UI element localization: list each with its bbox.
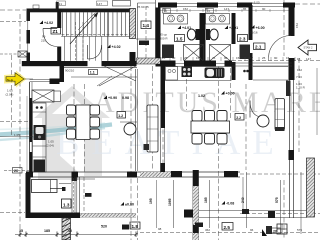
svg-text:86: 86 bbox=[243, 7, 247, 11]
corridor wall x136 bbox=[135, 69, 137, 171]
watermark house logo bbox=[34, 86, 110, 180]
stair room top wall bbox=[27, 9, 136, 13]
bed room 1.3 bbox=[32, 180, 58, 193]
dim leader left bbox=[0, 136, 33, 138]
hatched pier bottom left bbox=[62, 218, 71, 240]
svg-text:15: 15 bbox=[236, 56, 240, 60]
svg-text:90/210: 90/210 bbox=[65, 69, 75, 73]
dashed horizontal y232.5 bbox=[140, 232, 320, 234]
label 2 small box bbox=[85, 193, 92, 197]
window gap west wall a bbox=[27, 21, 31, 30]
svg-text:25: 25 bbox=[212, 56, 216, 60]
svg-text:+0.90: +0.90 bbox=[108, 96, 117, 100]
hob unit2 dots bbox=[243, 70, 246, 73]
stair room left wall lower bbox=[57, 47, 61, 63]
wall x160 lower bbox=[161, 66, 166, 128]
dashed grid vertical x11.5 bbox=[11, 55, 13, 136]
svg-text:98: 98 bbox=[158, 227, 162, 231]
svg-text:1.05: 1.05 bbox=[14, 133, 20, 137]
black chunk terrace bbox=[184, 210, 193, 218]
svg-text:575: 575 bbox=[275, 197, 279, 203]
level +4.02 b bbox=[107, 45, 111, 49]
dishwasher unit1 bbox=[166, 67, 178, 81]
mid wall band left bbox=[137, 58, 161, 64]
stairs lower treads bbox=[64, 36, 108, 60]
wall x193 dark block bottom bbox=[193, 225, 199, 233]
svg-text:25: 25 bbox=[184, 56, 188, 60]
wall x160 dark chunk low bbox=[161, 163, 166, 172]
stairs landing line bbox=[61, 35, 129, 37]
label 1.4 box bbox=[141, 21, 151, 29]
room 1.3 bottom wall bbox=[26, 213, 81, 219]
svg-text:520: 520 bbox=[101, 225, 107, 229]
wall right of bathroom2 bbox=[232, 13, 236, 44]
svg-text:26/16: 26/16 bbox=[250, 31, 258, 35]
kitchen unit2 counter bbox=[253, 66, 288, 68]
pier above wall bbox=[56, 2, 59, 9]
washer 2 bbox=[240, 45, 251, 60]
svg-text:152: 152 bbox=[183, 7, 188, 11]
svg-text:90: 90 bbox=[172, 56, 176, 60]
bathroom divider wall bbox=[200, 13, 206, 65]
stair dashed cut line bbox=[62, 34, 137, 36]
stair room bottom wall bbox=[22, 61, 88, 66]
svg-text:2.2: 2.2 bbox=[236, 116, 241, 120]
vertical dim line x246 bbox=[246, 172, 248, 228]
svg-text:24: 24 bbox=[207, 9, 211, 13]
svg-text:96: 96 bbox=[250, 228, 254, 232]
svg-text:25: 25 bbox=[162, 56, 166, 60]
dining table left apartment bbox=[76, 105, 90, 140]
tick row under top wall bbox=[160, 10, 290, 12]
stair room left wall upper bbox=[57, 9, 61, 29]
svg-text:+4.01: +4.01 bbox=[229, 26, 238, 30]
lower left apartment left wall bbox=[29, 82, 31, 173]
svg-text:2.1: 2.1 bbox=[255, 45, 262, 50]
svg-text:1.20 R: 1.20 R bbox=[296, 86, 306, 90]
dashed grid vertical x284 bbox=[283, 0, 285, 56]
dashed horizontal y131.5 left bbox=[0, 121, 29, 123]
dashed grid vertical x246 bbox=[245, 84, 247, 170]
dashed grid vertical x218.5 bbox=[218, 66, 220, 240]
svg-text:15: 15 bbox=[286, 56, 290, 60]
svg-text:147: 147 bbox=[224, 7, 229, 11]
svg-text:(2.04): (2.04) bbox=[46, 144, 54, 148]
right edge dim line bbox=[316, 68, 318, 135]
svg-text:1.02: 1.02 bbox=[198, 94, 205, 98]
dining set unit1 chairs bottom row bbox=[192, 134, 227, 145]
level +4.02 a bbox=[40, 21, 44, 25]
unit divider wall x242 bbox=[249, 5, 253, 40]
top wall right section bbox=[158, 3, 177, 8]
vertical dim line x280 bbox=[280, 180, 282, 228]
dashed horizontal y213.5 right bbox=[240, 213, 320, 215]
svg-text:16: 16 bbox=[164, 9, 168, 13]
toilet 1 bbox=[196, 29, 200, 40]
svg-text:185: 185 bbox=[44, 229, 50, 233]
small dark label on dash bbox=[242, 209, 249, 214]
chairs left column bbox=[67, 105, 100, 139]
closet with X bbox=[32, 90, 54, 102]
label 1.2 box bbox=[117, 112, 126, 119]
dashed grid vertical x184.5 bbox=[186, 64, 188, 110]
room 1.3 left wall bbox=[26, 173, 31, 218]
stair door arc left bbox=[43, 29, 57, 47]
small dark label under 1.4 bbox=[139, 41, 149, 46]
watermark teal swoosh bbox=[0, 125, 112, 135]
bottom dimension line left bbox=[15, 234, 136, 236]
entry door swing X bbox=[104, 66, 136, 81]
toilet 2 bbox=[206, 29, 210, 40]
mid thin lines to right bbox=[232, 62, 292, 64]
threshold at entry bbox=[30, 81, 60, 83]
shower 1 bbox=[184, 45, 204, 62]
svg-text:210: 210 bbox=[41, 39, 46, 43]
label 1.3 box bbox=[62, 199, 72, 208]
terrace edge lines lower right bbox=[199, 210, 307, 212]
right outer wall bbox=[289, 5, 295, 36]
label 1.5 box bbox=[175, 35, 185, 42]
vertical dim line x209 bbox=[209, 180, 211, 228]
svg-text:575: 575 bbox=[297, 228, 302, 232]
svg-text:+6.00: +6.00 bbox=[256, 26, 265, 30]
svg-text:1.3: 1.3 bbox=[63, 203, 70, 208]
svg-text:90: 90 bbox=[262, 7, 266, 11]
yellow arrow bbox=[4, 71, 27, 88]
stair dashed overhead lines bbox=[75, 22, 77, 60]
window gap west wall b bbox=[27, 44, 31, 53]
svg-text:Z1: Z1 bbox=[53, 29, 59, 34]
svg-text:7.53: 7.53 bbox=[296, 75, 302, 79]
stair stringer line bbox=[107, 12, 109, 61]
svg-text:1.4: 1.4 bbox=[143, 23, 150, 28]
thin vertical x301 bbox=[300, 172, 302, 234]
shelf line bbox=[50, 188, 64, 190]
shaft lines right of stair room bbox=[137, 3, 139, 62]
svg-text:40: 40 bbox=[68, 229, 72, 233]
small label boxes bathrooms bbox=[163, 9, 171, 14]
round table living left bbox=[124, 123, 136, 135]
sink counter 2 bbox=[206, 14, 230, 25]
svg-text:+0.00: +0.00 bbox=[226, 92, 235, 96]
sink counter 1 bbox=[164, 14, 188, 25]
entry stub wall bbox=[50, 79, 60, 85]
dashed grid vertical x230.5 bbox=[230, 68, 232, 120]
washer 1 bbox=[162, 45, 174, 59]
door gap bathroom2 bbox=[216, 61, 225, 67]
label Z1 box bbox=[51, 28, 61, 35]
thin vertical x243 terrace bbox=[242, 177, 244, 211]
svg-text:90: 90 bbox=[274, 56, 278, 60]
svg-text:2.5: 2.5 bbox=[224, 225, 231, 230]
level marker +0.90 bbox=[104, 96, 108, 100]
wardrobe right wall bbox=[286, 81, 291, 97]
svg-text:-0.08: -0.08 bbox=[226, 202, 234, 206]
svg-text:1065: 1065 bbox=[168, 198, 172, 206]
svg-text:185: 185 bbox=[204, 197, 208, 203]
level +4.01 b bbox=[225, 26, 229, 30]
svg-text:+4.01: +4.01 bbox=[182, 26, 191, 30]
label 2.1 box bbox=[254, 43, 266, 50]
svg-text:15: 15 bbox=[297, 57, 301, 61]
level marker -0.08 right bbox=[222, 201, 226, 205]
kitchen appliance above room1.3 bbox=[34, 160, 45, 172]
shower 2 bbox=[210, 45, 231, 62]
label 2.2 box bbox=[235, 114, 244, 121]
dashed horizontal top left bbox=[0, 9, 26, 11]
mid wall band bathrooms bbox=[160, 61, 232, 67]
dining table unit1 bbox=[191, 121, 230, 133]
label 26 dashed leader bbox=[4, 170, 29, 172]
round table unit2 bbox=[257, 115, 269, 127]
svg-text:1.8: 1.8 bbox=[132, 224, 139, 229]
sink unit1 bbox=[205, 68, 225, 79]
dark square terrace right bbox=[268, 211, 275, 218]
right wall dark seg y150 bbox=[289, 150, 295, 160]
svg-text:S+A: S+A bbox=[7, 78, 14, 82]
kitchen sink dark bbox=[34, 125, 46, 140]
door gap bathroom1 bbox=[176, 61, 185, 67]
small box with X top left bbox=[18, 51, 27, 57]
svg-text:90: 90 bbox=[224, 56, 228, 60]
svg-text:0.98: 0.98 bbox=[122, 96, 129, 100]
dashed horizontal top right bbox=[295, 3, 320, 5]
dashed horizontal y21.5 bbox=[0, 21, 26, 23]
white arrow STAN2 bbox=[298, 40, 317, 55]
kitchen fridge dark bbox=[34, 160, 46, 173]
room 1.3 right wall bbox=[72, 177, 77, 181]
svg-text:152: 152 bbox=[297, 68, 302, 72]
dashed grid vertical x88 bbox=[84, 84, 86, 172]
kitchen strip left bbox=[33, 103, 47, 172]
entry wall bbox=[60, 66, 65, 82]
label 1.1 box entry bbox=[89, 70, 98, 75]
svg-text:300 R: 300 R bbox=[160, 37, 169, 41]
level marker +-0.00 left bbox=[121, 202, 125, 206]
kitchen unit1 counter bbox=[165, 66, 232, 68]
dashed horizontal y212.5 left bbox=[0, 212, 25, 214]
dashed shaft line x146 bbox=[145, 6, 147, 60]
chairs right column bbox=[90, 105, 100, 115]
stairs upper treads bbox=[63, 12, 126, 36]
svg-text:+6.00: +6.00 bbox=[252, 1, 260, 5]
sofa unit2 bbox=[275, 99, 285, 131]
balcony rect above bbox=[113, 1, 131, 7]
small dark marks bottom right bbox=[266, 226, 272, 234]
windows in top wall bbox=[177, 4, 283, 7]
mid dimension ticks bbox=[161, 57, 295, 61]
svg-text:±0.00: ±0.00 bbox=[125, 203, 134, 207]
svg-text:35: 35 bbox=[19, 229, 23, 233]
door arc room 2.1 bbox=[250, 101, 265, 118]
left room label box top bbox=[33, 5, 39, 9]
svg-text:195: 195 bbox=[149, 198, 153, 204]
svg-text:20: 20 bbox=[273, 230, 277, 234]
dashed grid vertical x299 bbox=[298, 58, 300, 152]
vertical dim line x173 bbox=[173, 180, 175, 228]
svg-text:25: 25 bbox=[262, 56, 266, 60]
svg-text:25 90 25: 25 90 25 bbox=[137, 5, 149, 9]
level +6.00 bbox=[251, 25, 255, 29]
svg-text:1.1: 1.1 bbox=[90, 71, 95, 75]
bathroom block left wall bbox=[156, 8, 161, 67]
dashed horizontal y60.5 right bbox=[232, 60, 320, 62]
wall x193 vertical lower right bbox=[192, 170, 194, 240]
left room west wall bbox=[27, 9, 31, 67]
door arc stair hall to unit bbox=[88, 45, 102, 59]
dashed grid vertical A x20 bbox=[19, 14, 21, 232]
dashed grid vertical x131 bbox=[130, 66, 132, 240]
stair arrow diagonal bbox=[70, 13, 98, 45]
svg-text:STAN 2: STAN 2 bbox=[304, 46, 313, 50]
dining set unit1 chairs top row bbox=[192, 111, 227, 122]
svg-text:147: 147 bbox=[306, 57, 311, 61]
svg-text:26: 26 bbox=[14, 169, 18, 173]
stove unit1 bbox=[182, 67, 193, 78]
bottom labels right bbox=[222, 223, 233, 231]
svg-text:152: 152 bbox=[196, 56, 201, 60]
door arc unit2 entry bbox=[269, 35, 292, 57]
svg-text:+4.02: +4.02 bbox=[112, 45, 121, 49]
level +4.01 a bbox=[178, 26, 182, 30]
right hatched wall strip bbox=[307, 158, 315, 217]
svg-text:1.2: 1.2 bbox=[118, 114, 123, 118]
svg-text:+4.02: +4.02 bbox=[44, 21, 53, 25]
sofa left apartment bbox=[147, 105, 158, 152]
dashed grid vertical x152.5 bbox=[152, 66, 154, 171]
svg-text:1.5: 1.5 bbox=[176, 36, 183, 41]
svg-text:362: 362 bbox=[205, 228, 210, 232]
kitchen wall lower left apartment bbox=[61, 66, 137, 68]
level marker +0.00 unit1 bbox=[221, 91, 225, 95]
label 2.3 box bbox=[238, 35, 248, 42]
svg-text:152: 152 bbox=[295, 23, 299, 28]
dashed grid vertical x74 bbox=[73, 84, 75, 172]
south wall main y172 bbox=[26, 171, 240, 173]
shaft cross line bbox=[136, 38, 160, 40]
svg-text:147: 147 bbox=[248, 56, 253, 60]
dashed grid vertical x137.5 low bbox=[137, 178, 139, 240]
dashed grid vertical x163 bbox=[162, 122, 164, 176]
svg-text:2.3: 2.3 bbox=[239, 36, 246, 41]
stair room right wall bbox=[130, 9, 136, 39]
svg-text:(2.04): (2.04) bbox=[6, 92, 14, 96]
